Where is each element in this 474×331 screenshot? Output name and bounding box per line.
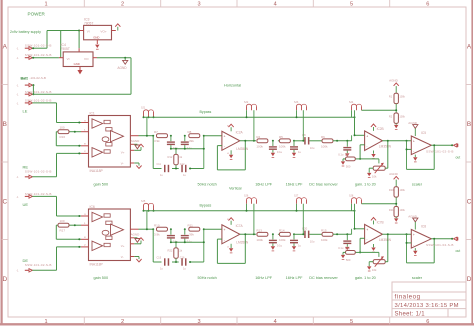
AGND at divider top <box>389 79 399 94</box>
connector J1 battery +9V <box>16 44 51 51</box>
svg-text:100k: 100k <box>279 238 286 242</box>
svg-text:1: 1 <box>44 1 47 7</box>
svg-text:-: - <box>366 144 367 148</box>
resistor R4 100k <box>256 135 268 148</box>
wire dc out <box>333 233 352 235</box>
svg-text:Sheet: 1/1: Sheet: 1/1 <box>395 311 426 317</box>
svg-text:VI: VI <box>87 29 90 33</box>
svg-text:scaler: scaler <box>412 183 423 187</box>
node scaler in <box>406 140 408 142</box>
svg-text:7905T: 7905T <box>61 47 70 51</box>
svg-text:gain. 1 to 20: gain. 1 to 20 <box>355 183 376 187</box>
power V+ at in-amp <box>134 238 143 244</box>
connector J9 electrode DE <box>16 258 51 273</box>
node AGND tap <box>124 57 126 59</box>
svg-text:+: + <box>366 228 368 232</box>
wire battery+ to IC3 <box>32 47 47 49</box>
svg-text:SJ7: SJ7 <box>294 195 299 198</box>
potentiometer R18 10k <box>372 256 385 272</box>
power V- at in-amp <box>134 163 141 168</box>
wire fb to pot <box>360 159 379 164</box>
svg-text:+: + <box>224 135 226 139</box>
ground at cap3 <box>345 153 349 156</box>
node UE at IN+ <box>78 215 80 217</box>
svg-text:C: C <box>2 198 7 205</box>
svg-text:+: + <box>413 140 415 144</box>
node pot out <box>387 140 389 142</box>
svg-text:-101-02-S-B: -101-02-S-B <box>30 76 46 80</box>
ground below IC3 <box>95 45 99 48</box>
svg-text:INA118P: INA118P <box>90 169 104 173</box>
wire scaler feedback <box>407 234 435 263</box>
power V- at in-amp <box>134 257 141 262</box>
capacitor C11 1u <box>157 163 170 177</box>
svg-text:INA118P: INA118P <box>90 262 104 266</box>
svg-text:GND: GND <box>74 62 80 66</box>
wire jumper3 to signal <box>302 110 304 141</box>
resistor R9 500 <box>343 153 360 168</box>
node cap rail a <box>170 241 172 243</box>
capacitor C17 0.1u <box>269 234 283 247</box>
svg-text:IC7A: IC7A <box>236 224 244 228</box>
svg-text:-: - <box>366 238 367 242</box>
svg-text:A: A <box>467 44 472 51</box>
node RG bottom <box>78 238 80 240</box>
op-amp IC5 scaler <box>411 131 431 154</box>
wire notch to buffer <box>204 135 222 137</box>
node notch in <box>152 228 154 230</box>
svg-text:V+: V+ <box>121 150 125 154</box>
node notch mid2 <box>184 228 186 230</box>
wire notch out leg <box>203 136 205 169</box>
op-amp IC8 scaler <box>411 225 431 248</box>
node bypass jumper2 tap <box>253 140 255 142</box>
svg-text:POWER: POWER <box>28 12 46 17</box>
jumper SJ3 <box>294 101 307 110</box>
wire pot left to ground <box>369 262 373 267</box>
capacitor C6 1u <box>290 141 301 154</box>
svg-text:5: 5 <box>350 1 353 7</box>
node scaler in <box>406 233 408 235</box>
wire jumper4 to divider <box>362 109 397 111</box>
svg-text:RE: RE <box>23 164 29 169</box>
wire Bypass <box>144 116 355 118</box>
wire pot left to ground <box>369 168 373 173</box>
node divider mid <box>395 109 397 111</box>
power V- at IC2B <box>371 151 375 159</box>
svg-text:-: - <box>224 144 225 148</box>
svg-text:100k: 100k <box>256 238 263 242</box>
wire notch cap rail <box>171 241 204 243</box>
svg-text:SJ4: SJ4 <box>349 101 354 104</box>
svg-text:SSW-101-02-S-B: SSW-101-02-S-B <box>426 149 454 153</box>
node bypass tap <box>143 116 155 136</box>
ground at cap3 <box>345 247 349 250</box>
AGND at in-amp REF pin <box>131 233 141 243</box>
node scaler out <box>433 144 435 146</box>
node buffer out <box>244 140 246 142</box>
wire jumper3 to bypass <box>296 110 298 117</box>
wire IC7B inverting input <box>360 238 365 252</box>
svg-text:100k: 100k <box>400 96 406 99</box>
wire battery center A <box>32 84 33 86</box>
wire IC5 output <box>431 144 452 146</box>
AGND symbol near IC4 <box>117 58 127 70</box>
jumper SJ8 <box>349 195 362 204</box>
svg-text:C11: C11 <box>157 163 162 166</box>
svg-text:50Hz notch: 50Hz notch <box>198 183 217 187</box>
svg-text:IC8: IC8 <box>421 225 426 229</box>
svg-text:Vertical: Vertical <box>229 186 242 190</box>
svg-text:R20: R20 <box>389 189 394 192</box>
node batt A <box>32 84 34 86</box>
ground at lpf2 <box>292 153 296 156</box>
svg-text:AGND: AGND <box>389 79 399 83</box>
wire signal to gain input <box>351 135 353 141</box>
wire IC2B inverting input <box>360 145 365 159</box>
svg-text:SSW-101-02-S-B: SSW-101-02-S-B <box>25 170 52 174</box>
svg-text:100k: 100k <box>321 238 328 242</box>
svg-text:2: 2 <box>121 1 124 7</box>
wire LE to IN+ <box>32 103 81 123</box>
svg-text:-: - <box>413 149 414 153</box>
svg-text:AGND: AGND <box>131 233 141 237</box>
svg-text:2: 2 <box>121 319 124 325</box>
node gain fb <box>359 251 361 253</box>
node dc in <box>302 140 304 142</box>
connector J7 output <box>426 144 458 154</box>
wire jumper4 to divider <box>362 203 397 205</box>
svg-text:39k: 39k <box>189 139 194 143</box>
wire IC2A feedback <box>217 141 245 170</box>
op-amp IC2B LM358N <box>365 127 392 150</box>
wire jumper2 to signal <box>253 204 255 235</box>
wire RE to IN- <box>32 153 81 176</box>
svg-text:Batt: Batt <box>21 76 29 80</box>
svg-text:500: 500 <box>346 258 351 262</box>
jumper SJ1 <box>141 107 154 118</box>
wire RG loop <box>56 132 81 146</box>
wire notch to buffer <box>204 228 222 230</box>
svg-text:SSW-101-02-S-B: SSW-101-02-S-B <box>25 263 52 267</box>
in-amp IC6 INA118P <box>81 205 139 267</box>
wire IC2B output <box>382 140 411 142</box>
wire UE to IN+ <box>32 196 81 216</box>
node bottom rail mid <box>175 261 177 263</box>
connector J6 electrode RE <box>16 164 51 179</box>
connector J8 electrode UE <box>16 192 51 199</box>
wire divider mid <box>395 104 397 113</box>
ground at lpf1 <box>271 246 275 249</box>
svg-text:100k: 100k <box>400 189 406 192</box>
wire jumper3 to bypass <box>296 204 298 211</box>
svg-text:10k: 10k <box>372 175 377 179</box>
resistor R20 100k <box>389 187 406 197</box>
capacitor C7 0.1u <box>338 141 351 157</box>
power V+ at IC7A <box>227 218 234 225</box>
node cap rail c <box>175 148 177 150</box>
ground at pot <box>367 266 371 269</box>
resistor R10 3.9k <box>154 224 168 237</box>
svg-text:4: 4 <box>274 1 277 7</box>
svg-text:C20: C20 <box>302 227 308 231</box>
wire IC8 output <box>431 238 452 240</box>
capacitor C8 10u DC block <box>294 133 322 150</box>
node bypass jumper2 tap <box>253 233 255 235</box>
svg-text:C8: C8 <box>302 133 306 137</box>
power V- at IC5 <box>413 155 417 162</box>
capacitor C18 1u <box>290 234 301 247</box>
wire notch cap rail <box>171 148 204 150</box>
ground at lpf2 <box>292 246 296 249</box>
jumper SJ4 <box>349 101 362 110</box>
node pot out <box>387 233 389 235</box>
svg-text:7805T: 7805T <box>84 21 93 25</box>
resistor R14 100k <box>279 229 290 242</box>
svg-text:LM358N: LM358N <box>236 147 249 151</box>
svg-text:VO: VO <box>84 57 89 61</box>
svg-text:DC bias remover: DC bias remover <box>309 276 338 280</box>
svg-text:scaler: scaler <box>412 276 423 280</box>
node out pin <box>451 238 453 240</box>
svg-text:39k: 39k <box>189 233 194 237</box>
resistor R1 100k <box>389 93 406 103</box>
svg-text:Horizontal: Horizontal <box>224 83 241 87</box>
svg-text:V-: V- <box>121 255 124 259</box>
svg-text:4: 4 <box>274 319 277 325</box>
title block <box>392 282 466 317</box>
capacitor C12 1u <box>180 163 187 177</box>
node dc in <box>302 233 304 235</box>
node dc bias <box>336 140 338 142</box>
svg-text:DE: DE <box>23 258 29 263</box>
wire IC2A output <box>240 140 256 142</box>
node bypass end <box>354 116 356 118</box>
svg-text:VO+: VO+ <box>100 29 106 33</box>
op-amp IC2A LM358N <box>222 131 249 151</box>
node jumper2 bypass <box>246 116 248 118</box>
wire IC7B output <box>382 233 411 235</box>
wire jumper2 to bypass <box>246 204 248 211</box>
node bypass tap <box>143 210 155 230</box>
power V- at IC7B <box>371 244 375 252</box>
voltage regulator IC4 <box>59 43 97 67</box>
node cap3 tap <box>346 140 348 142</box>
svg-text:3.9k: 3.9k <box>154 233 160 237</box>
in-amp IC1 INA118P <box>81 111 139 173</box>
svg-text:50Hz notch: 50Hz notch <box>198 276 217 280</box>
voltage regulator IC3 <box>80 17 116 44</box>
svg-text:3: 3 <box>197 319 200 325</box>
svg-text:R22: R22 <box>168 249 173 253</box>
power V- at IC7A <box>227 244 233 253</box>
node cap rail c <box>175 241 177 243</box>
svg-text:10u: 10u <box>310 146 315 150</box>
wire IC4 GND to supply <box>78 31 80 49</box>
wire IC7A output <box>240 233 256 235</box>
node gain in <box>354 134 356 136</box>
wire jumper to output <box>146 117 148 135</box>
wire DE to IN- <box>32 247 81 270</box>
wire bypass to gain input <box>355 110 365 135</box>
resistor R2 100k <box>389 113 406 123</box>
svg-text:B: B <box>3 121 7 128</box>
svg-text:V+: V+ <box>121 244 125 248</box>
power V- at IC8 <box>413 248 417 255</box>
svg-text:AGND: AGND <box>117 66 127 70</box>
wire +supply <box>47 31 84 58</box>
svg-text:D: D <box>2 276 7 283</box>
svg-text:D: D <box>467 276 472 283</box>
node notch out <box>203 228 205 230</box>
node notch out2 <box>203 148 205 150</box>
wire Bypass <box>144 210 355 212</box>
svg-text:VI: VI <box>67 57 70 61</box>
wire notch bottom rail <box>153 168 204 170</box>
wire notch left leg <box>152 136 154 169</box>
resistor R21 100k <box>389 207 406 217</box>
capacitor C16 1u <box>180 257 187 271</box>
node dc bias <box>336 233 338 235</box>
power V+ at IC2A <box>227 124 234 131</box>
svg-text:R9: R9 <box>345 153 349 157</box>
wire scaler feedback <box>407 141 435 170</box>
node cap rail b <box>184 148 186 150</box>
resistor R15 100k <box>321 229 333 242</box>
power -5V arrow below IC4 <box>77 67 82 75</box>
resistor R8 39k <box>188 130 200 143</box>
svg-text:out: out <box>456 249 461 253</box>
capacitor C13 0.1u <box>167 229 179 243</box>
wire batt tie <box>32 85 34 94</box>
resistor R22 1k <box>168 242 183 262</box>
svg-text:0.1u: 0.1u <box>338 152 344 156</box>
svg-text:SJ2: SJ2 <box>244 101 249 104</box>
svg-text:Bypass: Bypass <box>200 204 212 208</box>
node gain fb <box>359 158 361 160</box>
svg-text:IC7B: IC7B <box>377 221 384 225</box>
wire IC4 VO to AGND rail <box>97 58 131 94</box>
node scaler fb tap <box>406 242 408 244</box>
svg-text:gain. 1 to 20: gain. 1 to 20 <box>355 276 376 280</box>
resistor R12 1k <box>168 149 183 169</box>
frame row letters <box>2 44 471 284</box>
svg-text:A: A <box>3 44 8 51</box>
AGND at scaler <box>408 215 418 230</box>
svg-text:Bypass: Bypass <box>200 110 212 114</box>
svg-text:R16: R16 <box>60 135 66 139</box>
jumper SJ5 <box>141 200 154 211</box>
svg-text:LM358N: LM358N <box>236 240 249 244</box>
svg-text:LM358N: LM358N <box>379 238 392 242</box>
svg-text:C: C <box>467 198 472 205</box>
node notch mid1 <box>170 228 172 230</box>
svg-text:B: B <box>467 121 471 128</box>
capacitor C15 1u <box>157 257 170 271</box>
svg-text:DC bias remover: DC bias remover <box>309 183 338 187</box>
capacitor C19 0.1u <box>338 234 351 250</box>
svg-text:R12: R12 <box>168 155 173 159</box>
wire notch left leg <box>152 229 154 262</box>
ground at R9 <box>341 159 345 166</box>
node cap rail a <box>170 148 172 150</box>
svg-text:0.1u: 0.1u <box>338 246 344 250</box>
wire pot right to output <box>385 141 388 169</box>
node RG top <box>74 131 76 133</box>
node LE at IN+ <box>78 122 80 124</box>
wire notch bottom rail <box>153 261 204 263</box>
svg-text:6: 6 <box>426 1 429 7</box>
wire jumper to output <box>146 211 148 229</box>
svg-text:UE: UE <box>23 202 29 207</box>
power +5V arrow at IC3 output <box>115 24 120 31</box>
svg-text:100: 100 <box>60 126 65 130</box>
wire jumper2 to bypass <box>246 110 248 117</box>
wire IC7A feedback <box>217 234 245 263</box>
connector J2 battery -9V <box>16 53 51 60</box>
svg-text:3.9k: 3.9k <box>154 139 160 143</box>
node notch in <box>152 135 154 137</box>
svg-text:R17: R17 <box>60 228 66 232</box>
potentiometer R3 10k <box>372 163 385 179</box>
wire lpf1 to lpf2 <box>278 140 280 142</box>
node notch mid1 <box>170 135 172 137</box>
svg-text:100: 100 <box>60 219 65 223</box>
node notch out <box>203 135 205 137</box>
svg-text:gain 500: gain 500 <box>94 183 109 187</box>
connector J3 battery center pin A <box>16 83 32 87</box>
resistor R7 3.9k <box>154 130 168 143</box>
svg-text:IC1: IC1 <box>90 111 95 115</box>
power V+ at IC2B <box>371 124 376 131</box>
svg-text:AGND: AGND <box>131 139 141 143</box>
svg-text:SJ8: SJ8 <box>349 195 354 198</box>
resistor R5 100k <box>279 135 290 148</box>
wire dc out <box>333 140 352 142</box>
node notch mid2 <box>184 135 186 137</box>
capacitor C14 0.1u <box>181 229 193 243</box>
svg-text:finaleog: finaleog <box>395 293 421 300</box>
svg-text:SJ6: SJ6 <box>244 195 249 198</box>
node RG bottom <box>78 145 80 147</box>
wire battery- to IC4 VI <box>32 57 59 59</box>
jumper SJ6 <box>244 195 257 204</box>
node bottom rail r <box>189 261 191 263</box>
capacitor C9 0.1u <box>167 136 179 150</box>
svg-text:+: + <box>224 228 226 232</box>
wire Batt rail <box>32 93 131 95</box>
connector J10 output <box>426 237 458 247</box>
resistor R6 100k <box>321 135 333 148</box>
node battery+ <box>32 47 34 49</box>
net label Batt <box>21 76 46 80</box>
node divider mid <box>395 203 397 205</box>
svg-text:1u: 1u <box>298 243 301 247</box>
connector J5 electrode LE <box>16 98 51 105</box>
svg-text:IC2A: IC2A <box>236 131 244 135</box>
op-amp IC7A LM358N <box>222 224 249 244</box>
wire fb to pot <box>360 252 379 257</box>
node supply junction <box>78 30 80 32</box>
svg-text:16Hz LPF: 16Hz LPF <box>286 183 304 187</box>
svg-text:R21: R21 <box>389 209 394 212</box>
wire divider mid <box>395 197 397 206</box>
svg-text:16Hz LPF: 16Hz LPF <box>286 276 304 280</box>
node RG top <box>74 224 76 226</box>
svg-text:5: 5 <box>350 319 353 325</box>
wire bypass to gain input <box>355 204 365 229</box>
svg-text:1u: 1u <box>298 150 301 154</box>
